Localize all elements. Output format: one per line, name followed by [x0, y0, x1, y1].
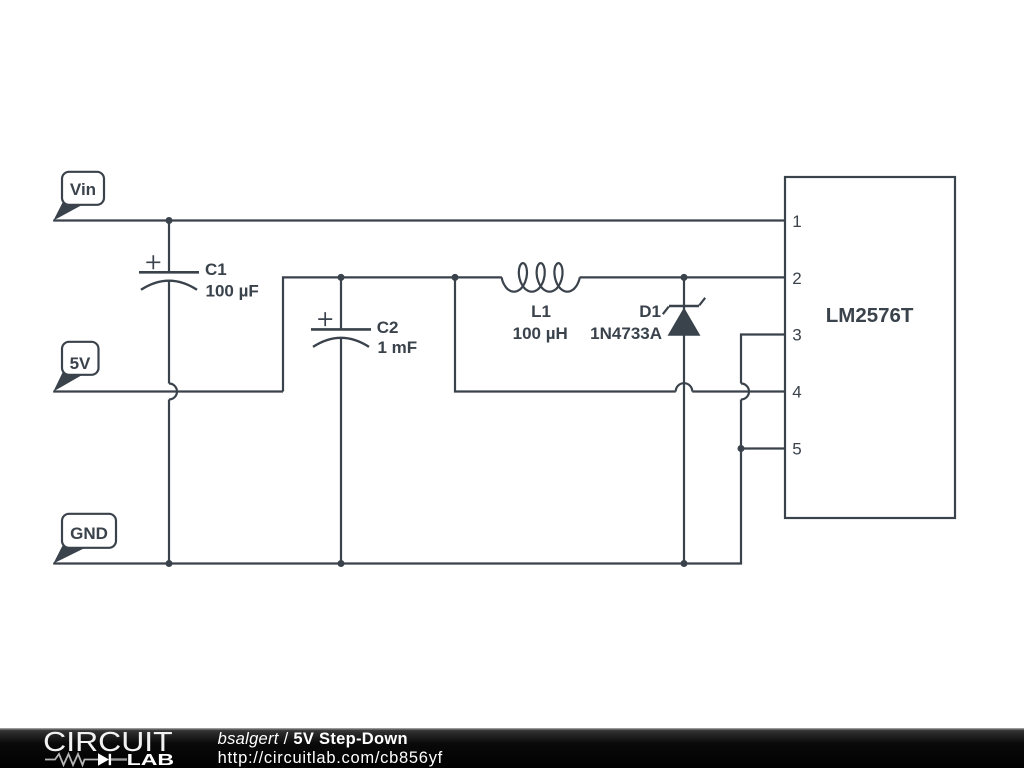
wire 5V rail — [53, 390, 283, 392]
node junction C1 bottom — [166, 560, 173, 567]
wire pin5 net — [741, 447, 785, 449]
logo resistor zigzag — [45, 754, 98, 765]
node junction D1 bottom — [681, 560, 688, 567]
wire pin3 net — [741, 335, 785, 564]
svg-text:1N4733A: 1N4733A — [590, 324, 662, 343]
wire Vin top rail — [53, 219, 785, 221]
node junction Vin/C1 — [166, 217, 173, 224]
svg-text:1: 1 — [792, 212, 801, 231]
IC U1 LM2576T — [785, 177, 955, 518]
svg-text:D1: D1 — [639, 302, 661, 321]
svg-text:LM2576T: LM2576T — [826, 304, 914, 327]
svg-text:C1: C1 — [205, 260, 227, 279]
node junction C2 bottom — [338, 560, 345, 567]
node junction pin5 — [738, 445, 745, 452]
svg-text:2: 2 — [792, 269, 801, 288]
node junction pin4 branch — [452, 274, 459, 281]
svg-text:5V: 5V — [70, 354, 91, 373]
flag GND — [53, 514, 116, 564]
footer bar — [0, 728, 1024, 768]
node junction C2 top — [338, 274, 345, 281]
svg-text:100 µF: 100 µF — [206, 282, 259, 301]
svg-text:4: 4 — [792, 383, 801, 402]
svg-text:C2: C2 — [377, 318, 399, 337]
svg-text:LAB: LAB — [127, 752, 175, 768]
svg-text:1 mF: 1 mF — [378, 338, 418, 357]
flag 5V — [53, 342, 98, 392]
svg-text:L1: L1 — [531, 302, 551, 321]
capacitor C2 — [311, 277, 417, 563]
logo diode — [98, 753, 109, 765]
wire pin4 net — [455, 277, 785, 391]
wire 5V corner up to pin2 rail — [283, 277, 785, 391]
inductor L1 — [502, 263, 580, 343]
diode D1 (zener 1N4733A) — [590, 277, 705, 563]
flag Vin — [53, 172, 104, 221]
svg-text:GND: GND — [70, 524, 108, 543]
svg-text:5: 5 — [792, 440, 801, 459]
capacitor C1 — [139, 221, 259, 564]
svg-text:Vin: Vin — [70, 180, 96, 199]
wire GND bottom rail — [53, 562, 742, 564]
svg-text:3: 3 — [792, 326, 801, 345]
svg-text:100 µH: 100 µH — [513, 324, 568, 343]
svg-text:http://circuitlab.com/cb856yf: http://circuitlab.com/cb856yf — [218, 749, 443, 767]
node junction D1 top — [681, 274, 688, 281]
svg-text:bsalgert / 5V Step-Down: bsalgert / 5V Step-Down — [218, 730, 408, 748]
